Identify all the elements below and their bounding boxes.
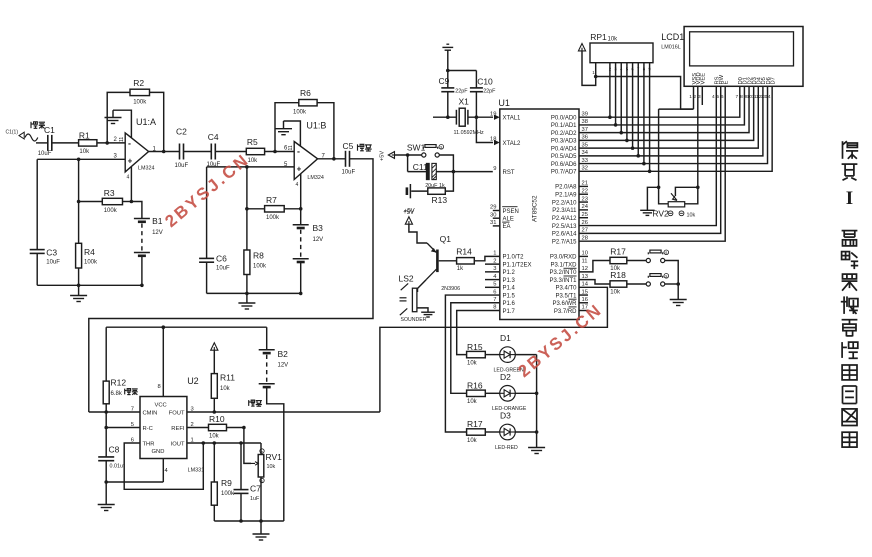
svg-text:P3.5/T1: P3.5/T1 <box>555 293 577 299</box>
wire SW1 to RST net <box>439 155 453 172</box>
input node C1(1) microphone <box>6 130 38 142</box>
svg-text:RP1: RP1 <box>590 32 607 42</box>
svg-text:+: + <box>128 157 133 166</box>
svg-text:+: + <box>297 164 302 173</box>
svg-text:P0.3/AD3: P0.3/AD3 <box>551 139 577 145</box>
wire U1:B output to C5 <box>318 158 346 160</box>
wire B1 to ground rail <box>141 256 143 285</box>
svg-text:4: 4 <box>712 94 715 100</box>
wire C11 to RST <box>436 171 493 173</box>
svg-text:100k: 100k <box>221 491 235 497</box>
svg-text:4: 4 <box>127 175 130 181</box>
resistor R12 6.8k <box>103 327 126 412</box>
svg-text:VEE: VEE <box>701 73 707 85</box>
wire XTAL2 row <box>476 117 493 142</box>
svg-text:P2.1/A9: P2.1/A9 <box>555 193 577 199</box>
svg-text:10uF: 10uF <box>216 266 230 272</box>
wire cap top rail <box>448 70 477 72</box>
wire R2 left leg <box>107 92 130 142</box>
wire VSS net down to RV2 <box>647 109 668 210</box>
wire R6 left leg <box>275 103 299 152</box>
resistor R2 feedback <box>130 78 150 106</box>
wire D2 to common <box>515 392 536 394</box>
svg-text:10k: 10k <box>687 213 696 219</box>
crystal X1 11.0592MHz <box>454 97 484 137</box>
LCD VDD wire to RV2 <box>675 86 699 204</box>
svg-text:LS2: LS2 <box>399 274 414 284</box>
resistor R11 10k <box>211 350 235 412</box>
svg-text:E: E <box>724 81 730 85</box>
op-amp U1:B <box>284 121 326 189</box>
capacitor C5 <box>342 141 356 176</box>
U1 pin numbers right <box>582 111 589 310</box>
wire U1:A pin4 down <box>130 167 132 202</box>
svg-text:R16: R16 <box>467 381 483 391</box>
svg-text:P1.2: P1.2 <box>503 270 516 276</box>
capacitor C6 <box>199 167 230 294</box>
svg-text:10k: 10k <box>467 361 478 367</box>
resistor R17 10k <box>610 247 627 272</box>
svg-text:P0.0/AD0: P0.0/AD0 <box>551 116 577 122</box>
wire down to R7/R8 node <box>246 167 248 209</box>
svg-text:P1.4: P1.4 <box>503 286 516 292</box>
svg-text:R15: R15 <box>467 342 483 352</box>
svg-text:D2: D2 <box>500 372 511 382</box>
wire R6 right leg <box>317 103 334 159</box>
wire CMIN row <box>89 411 140 413</box>
ground buttons <box>670 284 687 306</box>
svg-text:12V: 12V <box>152 230 163 236</box>
resistor R7 <box>265 195 285 221</box>
svg-text:C3: C3 <box>46 248 57 258</box>
svg-text:B2: B2 <box>278 349 289 359</box>
svg-text:6: 6 <box>721 94 724 100</box>
svg-text:D1: D1 <box>500 333 511 343</box>
wire pin11 U1:B to ground <box>284 121 301 147</box>
svg-text:X1: X1 <box>459 97 470 107</box>
svg-text:I: I <box>846 188 853 209</box>
svg-text:VCC: VCC <box>155 403 167 409</box>
wire P3.2 to R17 <box>579 261 610 272</box>
wire FOUT row <box>187 411 380 413</box>
svg-text:P0.7/AD7: P0.7/AD7 <box>551 170 577 176</box>
wire R18 to button <box>627 283 646 285</box>
transistor Q1 2N3906 <box>426 234 460 292</box>
svg-text:ALE: ALE <box>503 217 514 223</box>
svg-text:R14: R14 <box>456 247 472 257</box>
svg-text:5: 5 <box>716 94 719 100</box>
battery B3 12V <box>293 223 323 262</box>
svg-text:1: 1 <box>689 94 692 100</box>
svg-text:10k: 10k <box>267 464 276 470</box>
wire Q1 collector to sounder <box>417 280 426 292</box>
svg-text:GND: GND <box>152 449 165 455</box>
power arrow +5V to SW1 <box>388 152 394 159</box>
ground at RV2 <box>640 209 654 211</box>
svg-text:22pF: 22pF <box>455 89 468 95</box>
U1 pin numbers left <box>490 111 497 310</box>
svg-text:EA: EA <box>503 224 511 230</box>
svg-text:10k: 10k <box>610 289 621 295</box>
wire P1.7 to R15 <box>457 311 500 355</box>
capacitor C8 0.01uF <box>98 412 125 482</box>
svg-text:P2.5/A13: P2.5/A13 <box>552 224 577 230</box>
svg-text:C4: C4 <box>208 132 219 142</box>
label input <box>31 122 45 129</box>
svg-text:+5V: +5V <box>379 151 385 161</box>
U1 pin names right <box>549 116 577 315</box>
label output U2 <box>249 400 262 406</box>
svg-text:P1.6: P1.6 <box>503 301 516 307</box>
svg-text:P1.7: P1.7 <box>503 309 516 315</box>
svg-text:U1:B: U1:B <box>306 121 326 131</box>
LCD VEE stub <box>701 86 703 105</box>
svg-text:P2.7/A15: P2.7/A15 <box>552 240 577 246</box>
svg-text:P2.0/A8: P2.0/A8 <box>555 185 577 191</box>
svg-text:14: 14 <box>765 94 771 100</box>
wire R5 to U1:B inverting input <box>265 151 295 153</box>
svg-text:RV1: RV1 <box>266 452 283 462</box>
bottom rail U2 <box>214 520 283 522</box>
ground sounder <box>421 311 435 313</box>
wire down to R3/R4 node <box>78 159 80 201</box>
resistor R16 10k <box>467 381 486 406</box>
svg-text:R18: R18 <box>610 270 626 280</box>
P2.5 P2.6 P2.7 rows to LCD RS RW E <box>579 86 725 241</box>
svg-text:P3.1/TXD: P3.1/TXD <box>550 262 577 268</box>
svg-text:+5V: +5V <box>403 210 414 216</box>
ground above U1:B <box>275 121 292 135</box>
svg-text:s: s <box>665 250 667 255</box>
capacitor C1 <box>38 125 55 157</box>
push button key1 <box>646 258 650 262</box>
wire C2 to C4 <box>184 151 212 153</box>
wire XTAL1 row <box>433 116 456 118</box>
resistor R6 feedback <box>293 88 317 116</box>
junction pin5 branch <box>245 165 249 169</box>
svg-text:RV2: RV2 <box>652 209 669 219</box>
potentiometer RV1 10k <box>251 449 282 484</box>
svg-text:100k: 100k <box>253 264 267 270</box>
svg-text:P0.2/AD2: P0.2/AD2 <box>551 131 577 137</box>
capacitor C3 <box>30 159 61 285</box>
svg-text:R-C: R-C <box>143 426 153 432</box>
resistor R1 <box>79 131 97 156</box>
wire P1.5 to R17b <box>445 295 499 432</box>
wire button1 to common <box>665 261 678 285</box>
wire +5V to RP1 pin1 <box>582 51 596 86</box>
wire U1:A output <box>149 151 180 153</box>
stage1 ground rail <box>37 284 142 286</box>
svg-text:P0.1/AD1: P0.1/AD1 <box>551 123 577 129</box>
svg-text:LM331: LM331 <box>188 468 204 474</box>
svg-text:AT89C52: AT89C52 <box>532 195 539 222</box>
capacitor C9 22pF <box>439 71 469 118</box>
wire +5V to Q1 emitter <box>409 224 427 243</box>
LED D2 orange <box>492 372 527 412</box>
svg-text:P1.3: P1.3 <box>503 278 516 284</box>
svg-text:11: 11 <box>582 258 588 264</box>
resistor R5 <box>246 137 264 164</box>
wire R2 right leg <box>150 92 164 151</box>
resistor R9 100k <box>211 443 235 521</box>
svg-text:P0.5/AD5: P0.5/AD5 <box>551 154 577 160</box>
resistor R15 10k <box>467 342 486 367</box>
wire VCC rail U2 <box>106 326 267 328</box>
junction node at R1/R2 <box>105 141 109 145</box>
svg-text:-: - <box>297 147 300 157</box>
LCD VSS wire <box>659 86 694 109</box>
wire R17 to button <box>627 260 646 262</box>
svg-text:R3: R3 <box>104 188 115 198</box>
svg-text:U1: U1 <box>498 98 510 108</box>
svg-text:LCD1: LCD1 <box>661 32 684 42</box>
svg-text:R17: R17 <box>610 247 626 257</box>
svg-text:100k: 100k <box>293 110 307 116</box>
junction at output/R6 <box>332 157 336 161</box>
wire R15 to D1 <box>485 354 499 356</box>
svg-text:8: 8 <box>740 94 743 100</box>
svg-text:10k: 10k <box>467 399 478 405</box>
stage2 ground rail <box>207 292 301 294</box>
capacitor C7 1uF <box>234 443 262 521</box>
svg-text:C11: C11 <box>413 162 428 172</box>
ground above U1:A <box>105 110 122 123</box>
svg-text:10k: 10k <box>608 37 619 43</box>
svg-text:R17: R17 <box>467 419 483 429</box>
svg-text:7: 7 <box>131 406 134 412</box>
svg-text:C10: C10 <box>477 77 493 87</box>
svg-text:P1.5: P1.5 <box>503 293 516 299</box>
wire C1 to R1 <box>52 142 79 144</box>
svg-text:11: 11 <box>119 137 125 142</box>
wire +5V to SW1 <box>395 154 422 156</box>
svg-text:C9: C9 <box>439 76 450 86</box>
wire R14 to P1.0 <box>474 256 500 260</box>
power arrow +5V Q1 <box>405 217 412 224</box>
svg-text:IOUT: IOUT <box>171 441 185 447</box>
wire P1.6 to R16 <box>451 303 500 394</box>
wire VCC stub U2 <box>162 327 164 396</box>
svg-text:P3.6/WR: P3.6/WR <box>552 301 577 307</box>
svg-text:100k: 100k <box>84 260 98 266</box>
svg-text:100k: 100k <box>266 215 280 221</box>
label output at C5 <box>358 144 372 151</box>
wire R7 right <box>284 208 301 210</box>
svg-text:D7: D7 <box>770 77 776 84</box>
wire U1:B pin4 down to B3 <box>300 174 302 225</box>
junction R3 left <box>77 200 81 204</box>
potentiometer RV2 10k <box>652 193 695 218</box>
battery B1 12V <box>134 216 163 256</box>
junction at output/R2 <box>162 150 166 154</box>
svg-text:LM324: LM324 <box>138 166 154 172</box>
svg-text:11: 11 <box>288 145 294 150</box>
svg-text:4: 4 <box>296 182 299 188</box>
battery cell +5V at R13 <box>404 184 428 215</box>
svg-text:C2: C2 <box>176 127 187 137</box>
capacitor C11 20uF electrolytic <box>413 162 445 189</box>
wire RP1 pin1 to LCD VDD net <box>596 77 694 110</box>
wire R7 left <box>247 208 265 210</box>
svg-text:11.0592MHz: 11.0592MHz <box>454 130 484 136</box>
svg-text:12V: 12V <box>278 363 289 369</box>
svg-text:100k: 100k <box>104 208 118 214</box>
wire IOUT row <box>187 442 261 444</box>
svg-text:SOUNDER: SOUNDER <box>401 317 427 323</box>
wire R1 to U1:A inverting input <box>97 142 125 144</box>
svg-text:R4: R4 <box>84 247 95 257</box>
svg-text:8: 8 <box>158 384 161 390</box>
svg-text:R13: R13 <box>432 195 448 205</box>
resistor R17b 10k <box>467 419 486 444</box>
svg-text:2: 2 <box>114 137 118 143</box>
svg-text:7: 7 <box>736 94 739 100</box>
LED D1 green <box>494 333 525 374</box>
svg-text:1uF: 1uF <box>250 496 260 502</box>
resistor R13 1k <box>428 188 448 205</box>
svg-text:D3: D3 <box>500 411 511 421</box>
svg-text:R10: R10 <box>209 414 225 424</box>
svg-text:10k: 10k <box>209 434 220 440</box>
P0 bus rows to LCD data pins <box>579 86 772 171</box>
svg-text:2N3906: 2N3906 <box>441 286 460 292</box>
svg-text:Q1: Q1 <box>440 234 452 244</box>
resistor R3 <box>102 188 122 214</box>
svg-text:C8: C8 <box>109 445 120 455</box>
power arrow +5V R11 <box>211 343 218 350</box>
wire C4 to R5 <box>215 151 246 153</box>
svg-text:12V: 12V <box>313 237 324 243</box>
svg-text:P1.1/T2EX: P1.1/T2EX <box>503 262 532 268</box>
svg-text:10uF: 10uF <box>342 170 356 176</box>
wire RV1 bottom <box>260 477 262 521</box>
svg-text:19: 19 <box>490 111 496 117</box>
switch SW1 <box>407 143 444 158</box>
wire D3 to common <box>515 431 536 433</box>
svg-text:3: 3 <box>114 153 118 159</box>
wire RV1 top <box>260 443 262 455</box>
resistor pack RP1 10k <box>590 32 653 75</box>
svg-text:R6: R6 <box>300 88 311 98</box>
svg-text:P2.2/A10: P2.2/A10 <box>552 200 577 206</box>
wire non-inverting input U1:B <box>207 166 295 168</box>
svg-text:THR: THR <box>143 441 155 447</box>
svg-text:LED-RED: LED-RED <box>495 445 518 451</box>
wire pin11 U1:A to ground <box>113 110 131 138</box>
svg-text:R2: R2 <box>133 78 144 88</box>
resistor R4 <box>76 202 98 286</box>
ground C8 <box>98 482 115 511</box>
svg-text:P3.2/INT0: P3.2/INT0 <box>549 270 577 276</box>
svg-text:REFI: REFI <box>171 426 185 432</box>
svg-text:P1.0/T2: P1.0/T2 <box>503 255 525 261</box>
svg-text:0.01uf: 0.01uf <box>110 464 125 470</box>
wire P3.3 to R18 <box>579 280 610 284</box>
svg-text:R5: R5 <box>247 137 258 147</box>
wire C8 bottom to GND pin <box>106 481 163 483</box>
svg-text:18: 18 <box>490 137 496 143</box>
svg-text:22pF: 22pF <box>483 89 496 95</box>
svg-text:-: - <box>128 138 131 148</box>
ground U2 rail <box>253 521 270 540</box>
wire D1 to common <box>515 354 536 356</box>
IC U2 LM331 <box>131 376 204 474</box>
wire sounder to ground <box>417 308 428 312</box>
svg-text:1: 1 <box>592 70 595 75</box>
svg-text:XTAL2: XTAL2 <box>503 141 522 147</box>
capacitor C10 22pF <box>470 71 496 118</box>
ground above crystal caps <box>442 44 453 70</box>
wire R3 right to pin4 and battery <box>123 201 132 203</box>
svg-text:U1:A: U1:A <box>136 117 156 127</box>
svg-text:U2: U2 <box>187 376 199 386</box>
svg-text:6.8k: 6.8k <box>111 391 123 397</box>
svg-text:10uF: 10uF <box>38 151 52 157</box>
junction at pin3 branch <box>77 158 81 162</box>
LCD pin numbers <box>689 94 771 100</box>
svg-text:R11: R11 <box>220 373 235 383</box>
battery B2 12V <box>259 327 288 521</box>
push button key2 <box>646 282 650 286</box>
svg-text:10k: 10k <box>79 149 90 155</box>
wire LED common <box>536 355 538 448</box>
svg-text:RST: RST <box>503 170 515 176</box>
wire non-inverting input U1:A <box>37 158 125 160</box>
U1 pin names left <box>494 115 532 315</box>
svg-text:FOUT: FOUT <box>169 410 185 416</box>
resistor R10 10k <box>187 414 227 440</box>
svg-text:P0.4/AD4: P0.4/AD4 <box>551 146 577 152</box>
svg-text:R1: R1 <box>79 131 90 141</box>
svg-text:10k: 10k <box>220 386 231 392</box>
resistor R14 1k <box>456 247 474 273</box>
svg-text:C1(1): C1(1) <box>6 130 19 136</box>
svg-text:R9: R9 <box>221 478 232 488</box>
wire R10 to RV1 wiper <box>227 428 252 464</box>
microcontroller U1 AT89C52 <box>498 98 579 320</box>
wire R3 left <box>79 201 103 203</box>
wire P3.4/T0 to LM331 FOUT <box>380 287 608 412</box>
title appendix I noise monitoring system schematic <box>841 141 858 447</box>
svg-text:R12: R12 <box>111 378 127 388</box>
svg-text:9: 9 <box>493 166 496 172</box>
capacitor C4 <box>207 132 221 168</box>
svg-text:1k: 1k <box>457 266 464 272</box>
svg-text:B3: B3 <box>313 223 324 233</box>
U1 left pin stubs <box>485 211 500 288</box>
svg-text:10uF: 10uF <box>175 163 189 169</box>
svg-text:CMIN: CMIN <box>143 410 158 416</box>
svg-text:XTAL1: XTAL1 <box>503 116 522 122</box>
svg-text:C1: C1 <box>44 125 55 135</box>
svg-text:100k: 100k <box>133 100 147 106</box>
svg-text:s: s <box>440 145 442 150</box>
svg-text:P2.3/A11: P2.3/A11 <box>552 208 577 214</box>
label input R12 <box>125 389 138 395</box>
op-amp U1:A <box>114 117 157 181</box>
LCD1 LM016L display <box>661 27 803 87</box>
svg-text:P3.3/INT1: P3.3/INT1 <box>549 278 577 284</box>
svg-text:P2.6/A14: P2.6/A14 <box>552 232 577 238</box>
wire button2 to common <box>665 283 678 285</box>
svg-text:LM016L: LM016L <box>661 45 680 51</box>
LCD pin names <box>692 72 777 84</box>
resistor R8 <box>244 209 267 294</box>
wire +5V down to C11 <box>407 155 409 172</box>
power arrow +5V RP1 <box>578 44 585 51</box>
svg-text:P0.6/AD6: P0.6/AD6 <box>551 162 577 168</box>
